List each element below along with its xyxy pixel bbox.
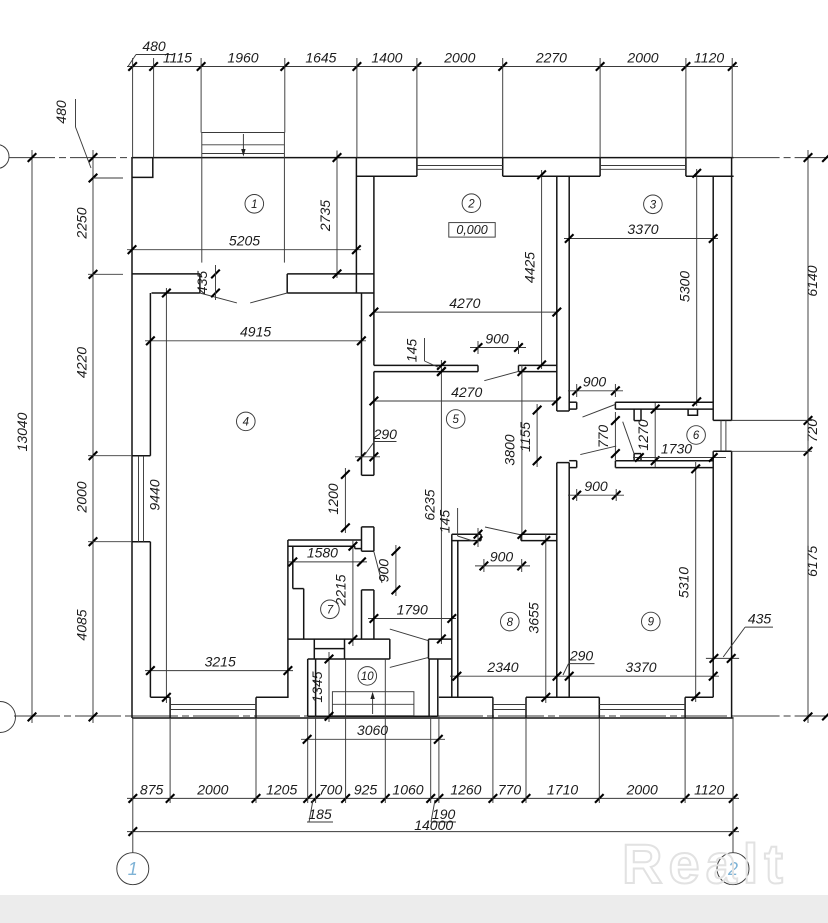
wall: porch bottom inner face seg1: [152, 292, 200, 294]
axis circle left bottom (partial): [0, 702, 16, 733]
room10 left wall: [307, 659, 309, 716]
svg-text:3060: 3060: [357, 722, 388, 738]
svg-text:1710: 1710: [547, 782, 578, 798]
svg-text:2735: 2735: [317, 200, 333, 232]
svg-text:4915: 4915: [240, 324, 271, 340]
svg-text:1400: 1400: [371, 50, 402, 66]
wall room3 bottom (y402-409) stub left: [569, 401, 577, 403]
wall rooms 2/5 seg2: [519, 364, 557, 366]
left chain stub y178: [93, 177, 123, 179]
wall room4/room2 right face lower: [373, 372, 375, 476]
dim 5300 (room3): [696, 169, 698, 406]
wall: right exterior outer face seg1: [731, 158, 733, 421]
top dim line: [127, 66, 738, 68]
axis circle 2: [717, 853, 749, 885]
door swing corridor-room7 leaf: [374, 552, 382, 583]
wall room8 top seg2: [521, 533, 557, 535]
svg-text:1270: 1270: [635, 419, 651, 450]
svg-text:5300: 5300: [677, 271, 693, 302]
dim 4270 (room5): [374, 400, 557, 402]
window B1 sills: [170, 704, 256, 706]
door swing room5-room8 leaf: [485, 527, 521, 535]
dim 145 (room2/5 wall): [437, 361, 446, 370]
dim 1270 (room6): [654, 403, 656, 467]
svg-text:1345: 1345: [309, 671, 325, 702]
wall cap at 900 door bottom (room7): [362, 589, 374, 591]
dim 435 (right wall) label: [706, 657, 739, 659]
svg-text:7: 7: [327, 605, 334, 617]
svg-text:4220: 4220: [74, 347, 90, 378]
svg-text:2270: 2270: [535, 50, 567, 66]
dim 900 (lobby-room9 door): [568, 494, 624, 496]
svg-text:3370: 3370: [627, 221, 658, 237]
svg-text:1060: 1060: [392, 782, 423, 798]
svg-text:4270: 4270: [451, 384, 482, 400]
wall cap at 1155 opening top: [557, 410, 569, 412]
window W2 sill lines: [600, 165, 686, 167]
wall lobby bottom seg right: [615, 460, 713, 462]
axis line B (bottom, dash-dot): [14, 715, 132, 717]
dim 3370 (room3): [564, 238, 718, 240]
wall: top exterior outer face / axis: [132, 157, 734, 159]
svg-text:10: 10: [361, 671, 374, 683]
dim 1580 (room7): [288, 561, 367, 563]
dim 2735 (porch): [336, 151, 338, 279]
window right wall jambs: [713, 419, 731, 421]
svg-text:1200: 1200: [325, 483, 341, 514]
axis tick right bottom: [822, 712, 828, 721]
window W2 top jamb right: [685, 158, 687, 177]
svg-text:925: 925: [354, 782, 378, 798]
wall: porch corner notch: [132, 158, 153, 178]
window left wall sills: [138, 456, 140, 542]
axis extension to circle 1: [132, 718, 134, 853]
door jambs room5-room8 900: [480, 534, 482, 540]
dim 1200 (door room4): [344, 468, 346, 533]
axis tick right top: [822, 153, 828, 162]
svg-text:1790: 1790: [397, 601, 428, 617]
svg-text:900: 900: [490, 549, 514, 565]
wall rooms 2/3 + 5/9 (x557-569) upper: [556, 176, 558, 411]
wall cap at 1200 door bottom: [362, 526, 374, 528]
room tag 1: [245, 195, 264, 214]
wall room4 side face (290 wall left): [361, 293, 363, 475]
svg-text:2340: 2340: [486, 659, 518, 675]
axis circle 1: [117, 853, 149, 885]
svg-text:1155: 1155: [517, 422, 533, 452]
left chain dim line: [92, 150, 94, 723]
dim 1730 (room6): [633, 457, 726, 459]
svg-text:435: 435: [748, 611, 772, 627]
svg-text:4270: 4270: [449, 295, 480, 311]
wall room6 top protrusion: [688, 409, 697, 415]
level mark 0,000: [449, 223, 495, 238]
window B3 jambs: [598, 697, 600, 718]
svg-text:900: 900: [584, 478, 608, 494]
room tag 6: [687, 426, 706, 445]
svg-text:1645: 1645: [305, 50, 336, 66]
dim 3060 (room10): [301, 738, 445, 740]
wall band inner box: [313, 639, 315, 659]
wall cap at 1200 door top: [362, 474, 374, 476]
top dim extension lines: [132, 58, 134, 158]
wall room4/7 left face: [287, 540, 289, 697]
dim 1790 (corridor): [368, 618, 456, 620]
wall room8 left (x452-458): [451, 534, 453, 697]
wall lobby bottom (y461-468) stub left: [569, 460, 577, 462]
bottom chain 1 ticks: [129, 794, 138, 803]
window B3 sills: [599, 704, 685, 706]
dim 6235 (room5): [440, 360, 442, 644]
dim 3800 (room5): [521, 365, 523, 540]
svg-text:770: 770: [498, 782, 522, 798]
wall: right exterior inner face seg2: [712, 451, 714, 697]
door swing room2-room5 leaf: [484, 371, 519, 380]
room tag 4: [237, 412, 256, 431]
wall: bottom exterior inner face seg4: [526, 696, 599, 698]
dim 5205 (porch): [127, 249, 361, 251]
dim 900 (room5-room8 door): [475, 565, 530, 567]
entrance step line 2: [202, 153, 285, 155]
axis extension to circle 2: [732, 718, 734, 853]
room tag 10: [358, 667, 377, 686]
svg-text:1115: 1115: [163, 50, 192, 66]
dim 9440 (room4): [165, 288, 167, 703]
svg-text:435: 435: [194, 271, 210, 295]
svg-text:4085: 4085: [74, 609, 90, 640]
room tag 8: [501, 612, 520, 631]
cellar steps outline: [332, 692, 414, 716]
svg-text:900: 900: [376, 559, 392, 583]
window W1 sill lines: [417, 165, 503, 167]
room tag 2: [462, 194, 481, 213]
dim 2215 (room7): [352, 540, 354, 646]
dim 290 (room4/5 wall) label: [357, 453, 366, 462]
svg-text:4425: 4425: [522, 252, 538, 283]
svg-text:6: 6: [693, 430, 700, 442]
svg-text:6140: 6140: [804, 265, 820, 296]
axis line B right of plan: [734, 715, 828, 717]
dim 4270 (room2): [374, 311, 557, 313]
svg-text:875: 875: [140, 782, 164, 798]
dim 3655 (room8): [545, 534, 547, 703]
wall: porch bottom outer face seg1: [132, 273, 200, 275]
svg-text:13040: 13040: [14, 412, 30, 451]
wall: bottom exterior inner face seg3: [439, 696, 493, 698]
wall room8 top (y534-541) seg1: [452, 533, 481, 535]
wall: left exterior outer face: [131, 158, 133, 718]
wall room3 bottom seg right: [615, 401, 713, 403]
svg-text:700: 700: [319, 782, 343, 798]
door jamb porch-room4 left: [199, 274, 201, 293]
wall: porch bottom inner face seg2: [287, 292, 374, 294]
svg-text:290: 290: [569, 648, 594, 664]
svg-text:2250: 2250: [74, 207, 90, 239]
cellar steps tread line: [332, 703, 414, 705]
left chain stub y541: [88, 541, 132, 543]
wall band jambs at door: [389, 639, 391, 659]
dim 3215 (room4): [145, 670, 293, 672]
svg-text:1120: 1120: [694, 782, 724, 798]
svg-text:2000: 2000: [74, 481, 90, 513]
axis line A continues right of plan: [734, 157, 828, 159]
axis line B through plan: [132, 715, 734, 717]
entrance steps outline: [202, 133, 285, 158]
svg-text:9: 9: [648, 617, 655, 629]
dim 900 (corridor-room7 door): [395, 545, 397, 596]
dim 4915 (room4): [145, 340, 366, 342]
svg-text:145: 145: [404, 339, 420, 363]
wall band corridor/room10 top face: [288, 638, 390, 640]
window W2 top jamb left: [599, 158, 601, 177]
svg-text:145: 145: [437, 510, 453, 534]
bottom chain 1 dim line: [127, 797, 739, 799]
svg-text:3800: 3800: [502, 434, 518, 465]
dim 900 (room2-5 door): [470, 347, 526, 349]
window B1 jambs: [169, 697, 171, 718]
wall room4/7 step: [293, 588, 304, 590]
cellar steps arrow: [372, 696, 374, 714]
dim 145 (room8 wall) label: [474, 530, 483, 539]
svg-text:2000: 2000: [626, 782, 658, 798]
svg-text:1120: 1120: [694, 50, 724, 66]
dim line 13040 vertical: [31, 150, 33, 723]
svg-text:0,000: 0,000: [456, 223, 487, 237]
footer gray bar: [0, 895, 828, 923]
svg-text:2000: 2000: [443, 50, 475, 66]
wall: bottom exterior inner face seg2: [256, 696, 289, 698]
right chain extension y451: [732, 450, 812, 452]
wall: top exterior inner face seg2: [503, 175, 600, 177]
window left wall jambs: [132, 455, 150, 457]
right chain dim line: [807, 150, 809, 723]
dim 900 (lobby-room3 door): [568, 390, 623, 392]
svg-text:900: 900: [583, 374, 607, 390]
room tag 7: [321, 600, 340, 619]
wall: left exterior inner face seg2: [149, 542, 151, 698]
wall between rooms 1/2+4 (x356-374): [373, 176, 375, 365]
svg-text:5205: 5205: [229, 233, 260, 249]
wall band corridor/room10 bottom face: [308, 658, 390, 660]
svg-text:Realt: Realt: [622, 832, 789, 895]
dim 2340+3370 line (rooms8/9): [450, 675, 719, 677]
window W1 top jamb right: [502, 158, 504, 177]
entrance step line 1: [202, 144, 285, 146]
dim 435 (porch wall) label: [211, 270, 220, 279]
window right wall sills: [720, 420, 722, 451]
svg-text:9440: 9440: [146, 479, 162, 510]
wall: right exterior inner face seg1: [712, 176, 714, 420]
svg-text:2000: 2000: [626, 50, 658, 66]
svg-text:14000: 14000: [414, 817, 453, 833]
svg-text:3370: 3370: [625, 659, 656, 675]
room tag 3: [644, 195, 663, 214]
svg-text:3215: 3215: [205, 653, 236, 669]
door swing lobby-room6 leaf: [623, 422, 634, 454]
bottom chain extension lines: [169, 718, 171, 803]
entrance arrow: [242, 134, 244, 152]
svg-text:1: 1: [251, 199, 257, 211]
wall: bottom exterior inner face seg5: [685, 696, 713, 698]
svg-text:6235: 6235: [421, 489, 437, 520]
svg-text:900: 900: [485, 330, 509, 346]
svg-text:1260: 1260: [450, 782, 481, 798]
wall room4/7 inner face upper: [292, 546, 294, 588]
room tag 9: [642, 612, 661, 631]
left chain stub y274: [88, 273, 123, 275]
wall lobby/room6 bottom stub: [633, 454, 635, 461]
door swing corridor-room10 lower leaf: [390, 657, 429, 667]
svg-text:5310: 5310: [676, 567, 692, 598]
wall: porch right face: [355, 158, 357, 293]
dim 4425 (room2): [541, 170, 543, 369]
right chain extension y420: [732, 419, 812, 421]
svg-text:5: 5: [452, 414, 459, 426]
svg-text:3: 3: [650, 200, 657, 212]
door jambs room2-room5 900: [477, 365, 479, 371]
door swing lobby-room3 leaf: [583, 405, 616, 418]
svg-text:290: 290: [373, 426, 398, 442]
window B2 jambs: [492, 697, 494, 718]
svg-text:1580: 1580: [307, 545, 338, 561]
dim 1155 (lobby opening): [536, 404, 538, 467]
room10 bottom edge: [308, 715, 438, 717]
wall rooms 5/8/9 (x557-569) lower: [556, 463, 558, 698]
left chain stub y455: [88, 455, 132, 457]
svg-text:4: 4: [243, 417, 249, 429]
svg-text:480: 480: [53, 100, 69, 124]
wall room7 top (y540-546): [288, 539, 362, 541]
wall: right exterior outer face seg2: [731, 451, 733, 718]
window W1 top jamb left: [416, 158, 418, 177]
window B2 sills: [493, 704, 526, 706]
wall: bottom exterior inner face seg1: [150, 696, 170, 698]
svg-text:1730: 1730: [661, 440, 692, 456]
door swing porch-room4 left leaf: [200, 293, 237, 303]
wall lobby/room6 top stub: [633, 409, 635, 421]
svg-text:1: 1: [128, 859, 138, 879]
room tag 5: [446, 410, 465, 429]
wall: top exterior inner face seg3: [686, 175, 734, 177]
svg-text:6175: 6175: [804, 546, 820, 577]
wall: left exterior inner face seg1: [149, 293, 151, 456]
room10 right wall: [428, 659, 430, 716]
axis circle left top (partial): [0, 145, 9, 169]
door swing lobby-room9 leaf: [580, 446, 616, 455]
svg-text:1205: 1205: [266, 782, 297, 798]
door jamb porch-room4 right: [286, 274, 288, 293]
wall room4/7 inner face lower: [303, 589, 305, 640]
svg-text:2000: 2000: [196, 782, 228, 798]
door swing corridor-room10 upper leaf: [390, 629, 429, 641]
svg-text:3655: 3655: [526, 602, 542, 633]
door swing porch-room4 right leaf: [250, 293, 287, 303]
svg-text:2: 2: [467, 198, 475, 210]
dim 770 (lobby-room6 door): [614, 412, 616, 460]
svg-text:720: 720: [804, 419, 820, 443]
wall: porch bottom outer face seg2: [287, 273, 374, 275]
dim 1345 (room10): [328, 652, 330, 722]
left chain ticks: [89, 153, 98, 162]
porch column line right: [283, 158, 285, 263]
porch column line left: [201, 158, 203, 263]
wall: top exterior inner face seg1: [356, 175, 417, 177]
svg-text:770: 770: [595, 425, 611, 449]
top dim ticks: [128, 62, 137, 71]
bottom chain 2 dim line 14000: [127, 831, 739, 833]
wall: bottom exterior outer face: [132, 717, 734, 719]
wall rooms 2/5 (y365-372) seg1: [374, 364, 478, 366]
wall cap at 1155 opening bottom: [557, 462, 569, 464]
dim 5310 (room9): [695, 462, 697, 702]
wall room7 top end notch: [354, 546, 356, 548]
wall cap at 900 door top (room7): [362, 550, 374, 552]
axis line A (top, dash-dot): [9, 157, 132, 159]
svg-text:1960: 1960: [227, 50, 258, 66]
svg-text:8: 8: [507, 617, 514, 629]
